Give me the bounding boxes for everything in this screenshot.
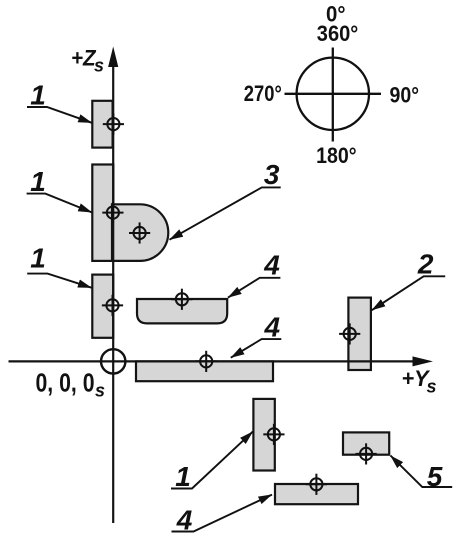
- leader for label 5: [391, 456, 453, 487]
- svg-text:180°: 180°: [316, 143, 357, 168]
- datum target on part 1 top: [103, 114, 124, 135]
- part 1 top rectangle: [92, 101, 112, 148]
- svg-text:s: s: [94, 56, 104, 76]
- svg-text:4: 4: [264, 311, 281, 342]
- compass circle: [297, 58, 369, 130]
- svg-text:1: 1: [30, 80, 46, 111]
- datum target on part 1 middle: [102, 202, 123, 223]
- part 1 lower rectangle: [92, 275, 113, 338]
- datum target on part 5: [356, 443, 377, 464]
- leader for label 2: [372, 276, 445, 310]
- datum target on part 3: [129, 222, 150, 243]
- svg-text:4: 4: [263, 249, 280, 280]
- svg-text:2: 2: [417, 249, 434, 280]
- datum target on part 1 lower: [102, 295, 123, 316]
- Z axis arrowhead: [108, 47, 118, 68]
- svg-text:270°: 270°: [244, 81, 282, 106]
- datum target on part 1 bottom: [263, 424, 284, 445]
- svg-text:s: s: [427, 377, 437, 397]
- datum target on part 4 bottom: [306, 474, 327, 495]
- compass horizontal line: [285, 93, 382, 95]
- part 2 rectangle: [348, 298, 371, 370]
- svg-text:360°: 360°: [317, 21, 359, 46]
- part 4 plate on Y axis: [136, 361, 273, 381]
- svg-text:1: 1: [30, 243, 46, 274]
- leader for label 4 upper: [228, 278, 280, 298]
- leader for label 4 bottom: [172, 495, 273, 532]
- part 4 upper rounded plate: [137, 299, 227, 323]
- leader for label 4 axis plate: [231, 339, 281, 358]
- svg-text:1: 1: [175, 461, 191, 492]
- leader for label 1 top: [27, 107, 92, 123]
- leader for label 1 bottom: [171, 432, 253, 489]
- svg-text:1: 1: [30, 166, 46, 197]
- Y axis line: [9, 360, 419, 362]
- origin circle: [101, 349, 125, 373]
- leader for label 1 lower: [27, 274, 91, 288]
- svg-text:3: 3: [264, 159, 280, 190]
- part 1 bottom vertical rectangle: [253, 399, 274, 471]
- datum target on part 4 upper: [171, 289, 192, 310]
- origin axis through circle: [100, 360, 126, 362]
- part 3 rounded D-tab: [112, 204, 168, 261]
- part 1 middle tall rectangle: [92, 165, 113, 261]
- part 5 small rectangle: [343, 432, 389, 454]
- datum target on part 2: [339, 323, 360, 344]
- svg-text:90°: 90°: [390, 83, 420, 108]
- svg-text:0, 0, 0: 0, 0, 0: [36, 368, 95, 398]
- Y axis arrowhead: [413, 356, 434, 366]
- datum target on part 4 axis plate: [196, 351, 217, 372]
- leader for label 1 middle: [27, 194, 92, 213]
- part 4 bottom plate: [275, 484, 358, 504]
- compass vertical line: [332, 48, 334, 142]
- svg-text:s: s: [95, 381, 105, 401]
- Z axis line: [112, 62, 114, 523]
- leader for label 3: [170, 187, 281, 239]
